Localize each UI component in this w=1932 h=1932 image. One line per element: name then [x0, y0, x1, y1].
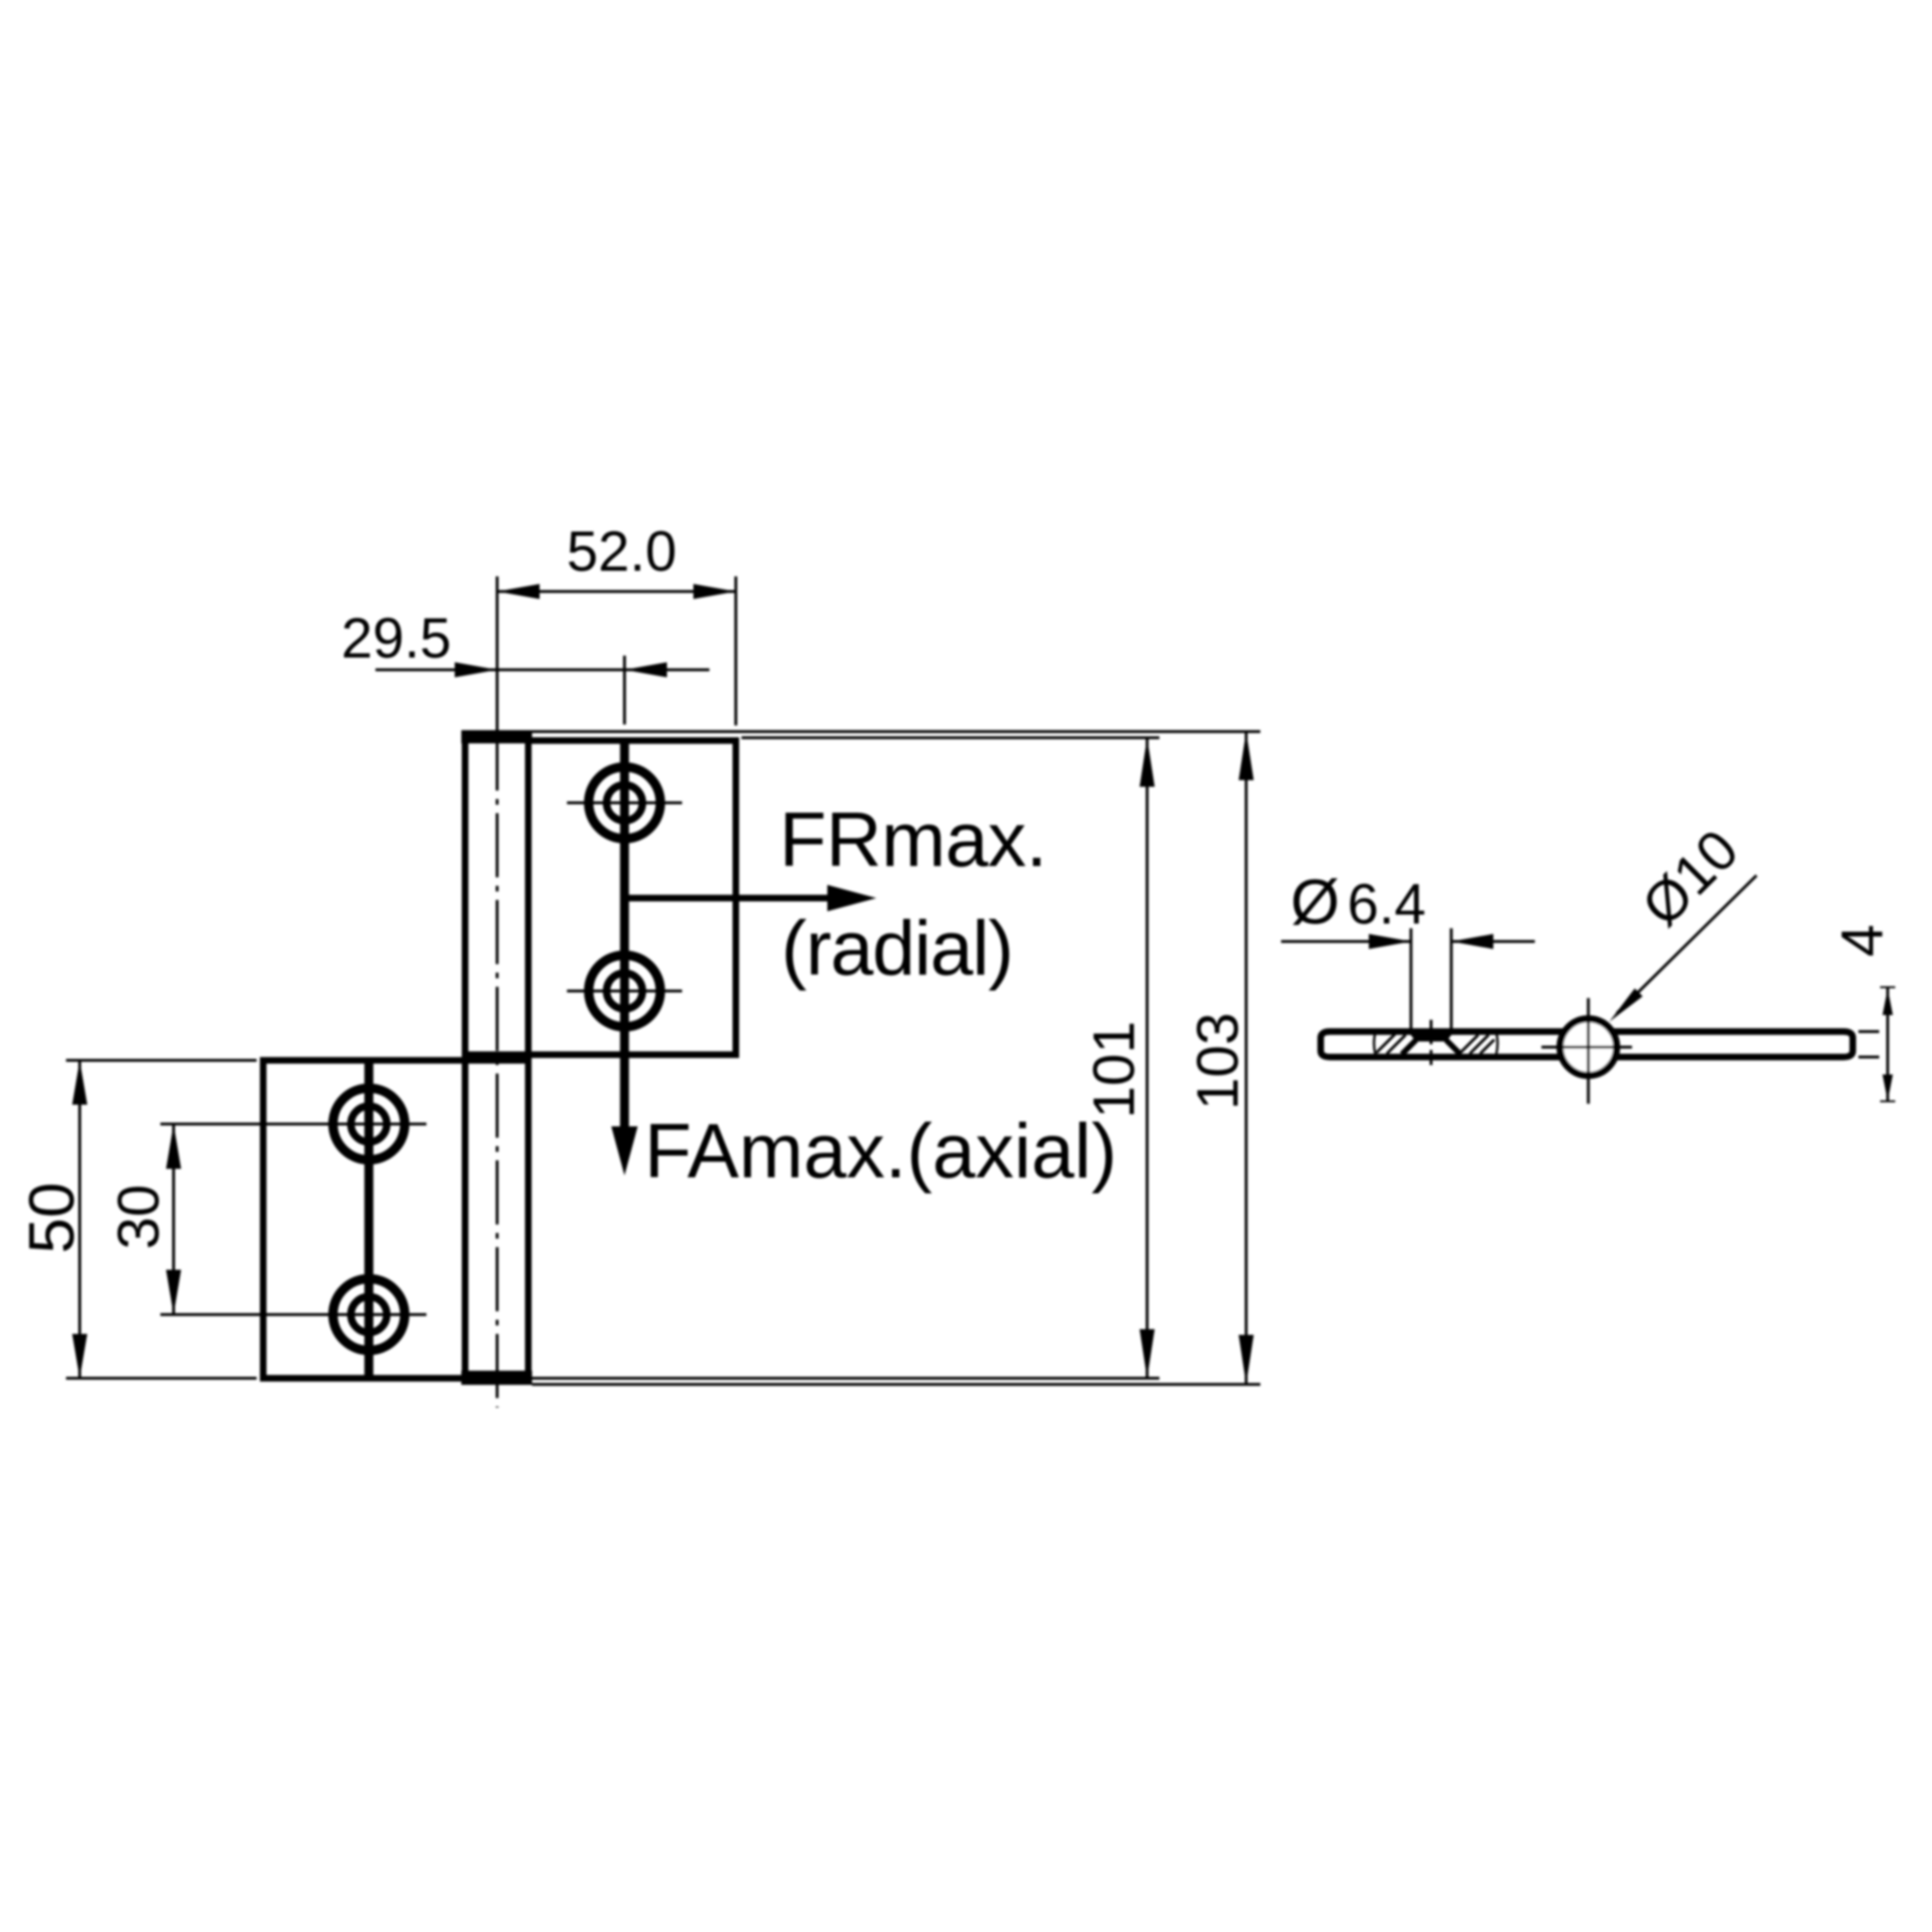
- 4 top extension line: [1858, 1030, 1879, 1033]
- 101 dimension line: [1146, 738, 1149, 1378]
- 50 top arrowhead: [73, 1060, 88, 1105]
- hatch right zone line 1: [1459, 1035, 1478, 1054]
- barrel centerline upper solid part: [496, 576, 499, 726]
- 52.0 left arrowhead: [497, 584, 540, 599]
- 52.0 dimension line: [497, 591, 736, 593]
- Ø10 leader arrowhead: [1609, 989, 1642, 1022]
- svg-text:(radial): (radial): [781, 906, 1013, 991]
- Ø6.4 left arrowhead (pointing right): [1369, 934, 1411, 949]
- 101 text (rotated): [1082, 1021, 1147, 1118]
- 4 top arrowhead (pointing up): [1883, 989, 1893, 1015]
- 29.5 right arrowhead (pointing left): [625, 662, 667, 677]
- 101 bottom arrowhead: [1140, 1329, 1155, 1378]
- svg-text:50: 50: [16, 1182, 88, 1254]
- countersink black cone: [1407, 1030, 1456, 1042]
- lower leaf bottom edge: [260, 1375, 470, 1382]
- 50 top extension line: [66, 1059, 257, 1062]
- upper hole 1 horizontal crosshair: [567, 802, 682, 805]
- 30 text (rotated): [107, 1185, 172, 1250]
- upper screw axis line: [620, 741, 629, 1128]
- 52.0 right extension line: [735, 576, 738, 725]
- svg-text:103: 103: [1186, 1012, 1251, 1109]
- svg-text:29.5: 29.5: [341, 607, 452, 670]
- 103 top extension line: [532, 730, 1260, 733]
- svg-text:101: 101: [1082, 1021, 1147, 1118]
- lower hole 1 crosshair + 30-dim top extension line: [160, 1123, 426, 1125]
- hatch left zone line 1: [1376, 1034, 1395, 1053]
- 29.5 dimension line left tail: [375, 669, 497, 672]
- pin circle (side view): [1560, 1019, 1617, 1075]
- countersink right cone edge: [1446, 1041, 1460, 1055]
- upper hole 1 outer ring: [589, 767, 660, 839]
- countersink left cone edge: [1402, 1041, 1416, 1055]
- 4 bottom arrowhead (pointing down): [1883, 1074, 1893, 1101]
- 103 dimension line: [1245, 732, 1248, 1385]
- pin circle vertical crosshair: [1587, 998, 1590, 1104]
- Ø10 leader line: [1617, 875, 1757, 1013]
- upper hole 2 outer ring: [589, 956, 660, 1027]
- hole centerline (side view): [1430, 1020, 1433, 1071]
- lower hole 2 inner ring: [351, 1297, 387, 1333]
- hatch right break line: [1496, 1032, 1498, 1055]
- upper leaf right edge: [733, 738, 740, 1058]
- svg-text:FRmax.: FRmax.: [779, 797, 1047, 883]
- lower leaf left edge: [260, 1058, 267, 1382]
- 50 bottom arrowhead: [73, 1334, 88, 1378]
- barrel centerline (dash-dot): [496, 726, 499, 1407]
- 29.5 extension line (screw axis): [624, 656, 626, 724]
- svg-text:Ø6.4: Ø6.4: [1291, 867, 1426, 938]
- 103 bottom arrowhead: [1239, 1335, 1254, 1385]
- pin circle horizontal crosshair: [1541, 1046, 1632, 1049]
- Ø10 text (rotated -45): [1630, 818, 1751, 939]
- 52.0 right arrowhead: [693, 584, 736, 599]
- 29.5 dimension line right tail: [625, 669, 709, 672]
- svg-text:52.0: 52.0: [567, 520, 677, 583]
- right plate outline: [1611, 1032, 1853, 1058]
- hatch right zone line 2: [1470, 1035, 1489, 1054]
- Ø6.4 dimension line left tail: [1281, 941, 1411, 943]
- barrel left edge: [462, 731, 469, 1384]
- 4 bottom tick: [1880, 1100, 1895, 1102]
- left plate outline: [1321, 1032, 1565, 1058]
- hatch left break line: [1374, 1032, 1376, 1055]
- 29.5 left arrowhead (pointing right): [455, 662, 497, 677]
- Ø6.4 right arrowhead (pointing left): [1451, 934, 1493, 949]
- upper hole 2 horizontal crosshair: [567, 990, 682, 992]
- 4 dimension line: [1887, 988, 1890, 1102]
- FR force arrow head: [827, 885, 876, 911]
- lower hole 2 outer ring: [333, 1279, 405, 1351]
- FR force arrow shaft: [625, 895, 829, 902]
- barrel top cap: [461, 730, 532, 743]
- 50 dimension line: [78, 1060, 81, 1378]
- 103 text (rotated): [1186, 1012, 1251, 1109]
- 4 bottom extension line: [1858, 1056, 1879, 1058]
- upper hole 2 inner ring: [607, 974, 642, 1009]
- hatch right zone line 3: [1480, 1040, 1494, 1054]
- 30 bottom arrowhead: [166, 1270, 181, 1315]
- 4 text (rotated): [1830, 924, 1895, 957]
- lower hole 2 crosshair + 30-dim bottom extension line: [160, 1313, 426, 1316]
- Ø6.4 left extension line: [1409, 928, 1412, 1029]
- 101 top extension line: [741, 737, 1159, 740]
- 101 top arrowhead: [1140, 738, 1155, 787]
- Ø6.4 dimension line right tail: [1451, 941, 1535, 943]
- Ø6.4 right extension line: [1450, 928, 1453, 1029]
- lower hole 1 inner ring: [351, 1107, 387, 1142]
- 50 text (rotated): [16, 1182, 88, 1254]
- lower hole 1 outer ring: [333, 1089, 405, 1160]
- upper leaf bottom edge: [465, 1052, 740, 1058]
- svg-text:30: 30: [107, 1185, 172, 1250]
- lower screw axis line: [364, 1060, 374, 1378]
- 101 bottom extension line: [532, 1377, 1159, 1380]
- lower leaf top edge: [260, 1058, 532, 1064]
- 29.5 dimension line middle: [497, 669, 625, 672]
- barrel right edge: [525, 731, 532, 1384]
- upper hole 1 inner ring: [607, 785, 642, 821]
- hatch left zone line 2: [1387, 1035, 1406, 1054]
- 30 top arrowhead: [166, 1124, 181, 1170]
- 4 top tick: [1880, 987, 1895, 989]
- 30 dimension line: [173, 1124, 175, 1315]
- svg-text:FAmax.(axial): FAmax.(axial): [644, 1108, 1117, 1194]
- barrel bottom cap: [461, 1371, 532, 1385]
- 103 bottom extension line: [532, 1383, 1260, 1386]
- svg-text:4: 4: [1830, 924, 1895, 957]
- 103 top arrowhead: [1239, 732, 1254, 781]
- 50 bottom extension line: [66, 1377, 257, 1380]
- upper leaf top edge: [528, 738, 740, 744]
- FA force arrow head (down): [611, 1126, 638, 1175]
